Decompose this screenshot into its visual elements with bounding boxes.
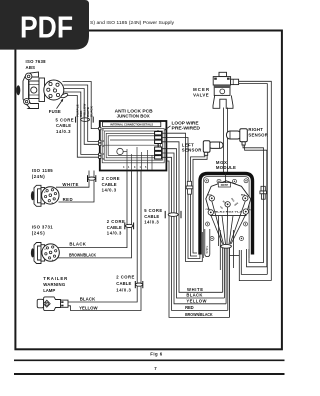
svg-text:(24S): (24S) (32, 231, 46, 236)
wire 5-core riser RED (162, 157, 228, 310)
svg-text:SENSOR: SENSOR (182, 147, 202, 152)
svg-text:CABLE: CABLE (56, 123, 71, 128)
svg-text:SENSOR: SENSOR (248, 132, 268, 137)
svg-text:CABLE: CABLE (144, 214, 159, 219)
trailer warning lamp (37, 276, 98, 311)
cable bundle (221, 244, 232, 317)
svg-text:14/0.3: 14/0.3 (102, 188, 117, 193)
svg-text:CABLE: CABLE (116, 281, 131, 286)
wire loop WHITE (module) (205, 229, 210, 257)
wire loop A2 (box to module left) (162, 138, 200, 259)
connector ISO 7638 ABS (16, 59, 46, 109)
connector ISO 1185 (24N) (31, 168, 79, 206)
svg-text:2 CORE: 2 CORE (107, 219, 125, 224)
svg-text:(24N): (24N) (32, 174, 46, 179)
svg-text:CABLE: CABLE (102, 182, 117, 187)
svg-text:BROWN/BLACK: BROWN/BLACK (185, 312, 213, 317)
wire BLACK to ISO 3731 (56, 171, 127, 248)
module terminals (206, 195, 252, 215)
junction box right pin column (155, 130, 162, 159)
wire WHITE to ISO 1185 (56, 171, 89, 188)
footer rule 1 (14, 359, 285, 361)
wire BLACK (7638 pin to junction box) (63, 82, 101, 129)
svg-text:BLACK: BLACK (80, 296, 96, 301)
wire colour labels (rotated) (76, 104, 94, 117)
svg-text:ABS: ABS (26, 65, 36, 70)
svg-text:FUSE: FUSE (49, 109, 61, 114)
wire right sensor pair (loops under module) (243, 145, 267, 267)
svg-text:2 CORE: 2 CORE (102, 176, 120, 181)
label LOOP WIRE PRE-WIRED (164, 120, 200, 130)
caption Fig 6 (150, 351, 163, 356)
module terminal plate (206, 181, 251, 216)
wire PURPLE (7638) (62, 96, 100, 158)
cable marker 5 core (riser) (165, 211, 181, 218)
fuse (49, 93, 69, 114)
svg-text:CABLE: CABLE (107, 225, 122, 230)
wire MCER valve pair (to right edge) (239, 81, 272, 280)
svg-text:PRE-WIRED: PRE-WIRED (172, 125, 201, 130)
cable marker 2 core (ISO 1185 pair) (88, 175, 96, 182)
svg-text:PDF: PDF (20, 10, 73, 44)
cable marker 5 core (top) (76, 117, 94, 123)
page header title (90, 20, 175, 25)
svg-text:RED: RED (185, 305, 194, 310)
footer rule 2 (14, 373, 285, 375)
svg-text:S) and ISO 1185 (24N) Power Su: S) and ISO 1185 (24N) Power Supply (90, 20, 175, 25)
module internal wires to bundle (211, 172, 246, 270)
wire 5-core riser BROWN/BLACK (166, 161, 230, 317)
svg-text:BLACK: BLACK (90, 105, 94, 117)
left sensor (182, 141, 223, 156)
wire RED (7638) (64, 92, 101, 154)
wire YELLOW to trailer lamp (68, 171, 141, 311)
svg-text:YELLOW: YELLOW (186, 299, 206, 304)
wire YELLOW (7638) (64, 89, 100, 145)
connector face ISO 7638 (44, 80, 64, 100)
wire RED to ISO 1185 (59, 171, 95, 203)
wire BLACK to trailer lamp (68, 171, 137, 303)
label 2 CORE CABLE 14/0.3 (lower) (116, 275, 134, 293)
inline connector (left sensor cable) (186, 181, 193, 194)
wire valve loop under module right (230, 250, 272, 281)
MGX module (200, 160, 253, 258)
cable marker 2 core (ISO 3731 pair) (125, 223, 134, 230)
svg-text:WHITE: WHITE (187, 287, 203, 292)
wire valve to module top (224, 108, 228, 173)
svg-text:WARNING: WARNING (43, 282, 66, 287)
wire 5-core riser YELLOW (162, 153, 227, 304)
junction box internal wiring (102, 129, 164, 170)
svg-text:INTERNAL CONNECTION DETAILS: INTERNAL CONNECTION DETAILS (110, 123, 153, 127)
wire WHITE (7638) (64, 85, 101, 142)
bottom colour labels (185, 287, 213, 317)
svg-text:JUNCTION BOX: JUNCTION BOX (117, 113, 150, 118)
wire loop A1 (box to module left) (162, 133, 203, 261)
label 5 CORE CABLE 14/0.3 (top left) (56, 117, 74, 134)
svg-text:YELLOW: YELLOW (79, 306, 98, 311)
svg-text:MODULE: MODULE (216, 165, 236, 170)
svg-text:FR/TP: FR/TP (221, 184, 229, 187)
anti-lock PCB junction box (100, 109, 167, 171)
wire 5-core riser BLACK (162, 149, 225, 298)
label 2 CORE CABLE 14/0.3 (upper) (102, 176, 120, 193)
svg-text:14/0.3: 14/0.3 (107, 231, 122, 236)
svg-text:BLACK: BLACK (186, 293, 202, 298)
svg-text:ISO 7638: ISO 7638 (26, 59, 47, 64)
svg-text:5 CORE: 5 CORE (56, 117, 74, 122)
cable marker 2 core (lamp pair) (135, 281, 143, 288)
svg-text:Fig 6: Fig 6 (150, 351, 163, 356)
svg-text:2 CORE: 2 CORE (116, 275, 134, 280)
label 5 CORE CABLE 14/0.3 (middle) (143, 207, 164, 226)
svg-text:BLK2 RD2 YL2: BLK2 RD2 YL2 (215, 212, 243, 214)
wire 5-core riser WHITE (162, 142, 223, 292)
page number 7 (154, 366, 157, 371)
MCER valve (193, 72, 239, 108)
svg-text:C/DL: C/DL (206, 209, 212, 211)
svg-text:ISO 3731: ISO 3731 (32, 225, 54, 230)
svg-text:VALVE: VALVE (193, 92, 209, 97)
svg-text:BLACK: BLACK (69, 241, 86, 246)
svg-text:WHITE: WHITE (206, 245, 209, 253)
connector ISO 3731 (24S) (31, 225, 97, 264)
svg-text:ISO 1185: ISO 1185 (32, 168, 54, 173)
svg-text:LAMP: LAMP (43, 288, 55, 293)
svg-text:14/0.3: 14/0.3 (116, 288, 131, 293)
module screws (205, 179, 248, 241)
inline connector (right sensor cable) (260, 186, 267, 199)
label 2 CORE CABLE 14/0.3 (middle) (107, 219, 125, 236)
wire left sensor pair (191, 155, 208, 256)
svg-text:14/0.3: 14/0.3 (144, 220, 159, 225)
wire BROWN/BLACK to ISO 3731 (56, 171, 132, 258)
svg-text:BROWN/BLACK: BROWN/BLACK (69, 252, 97, 257)
svg-text:5 CORE: 5 CORE (144, 208, 162, 213)
right sensor (227, 127, 269, 145)
PDF badge (0, 0, 89, 50)
svg-text:14/0.3: 14/0.3 (56, 129, 71, 134)
svg-text:RED: RED (63, 197, 73, 202)
svg-text:TRAILER: TRAILER (43, 276, 68, 281)
svg-text:WHITE: WHITE (62, 182, 78, 187)
junction box left terminals (99, 127, 105, 161)
